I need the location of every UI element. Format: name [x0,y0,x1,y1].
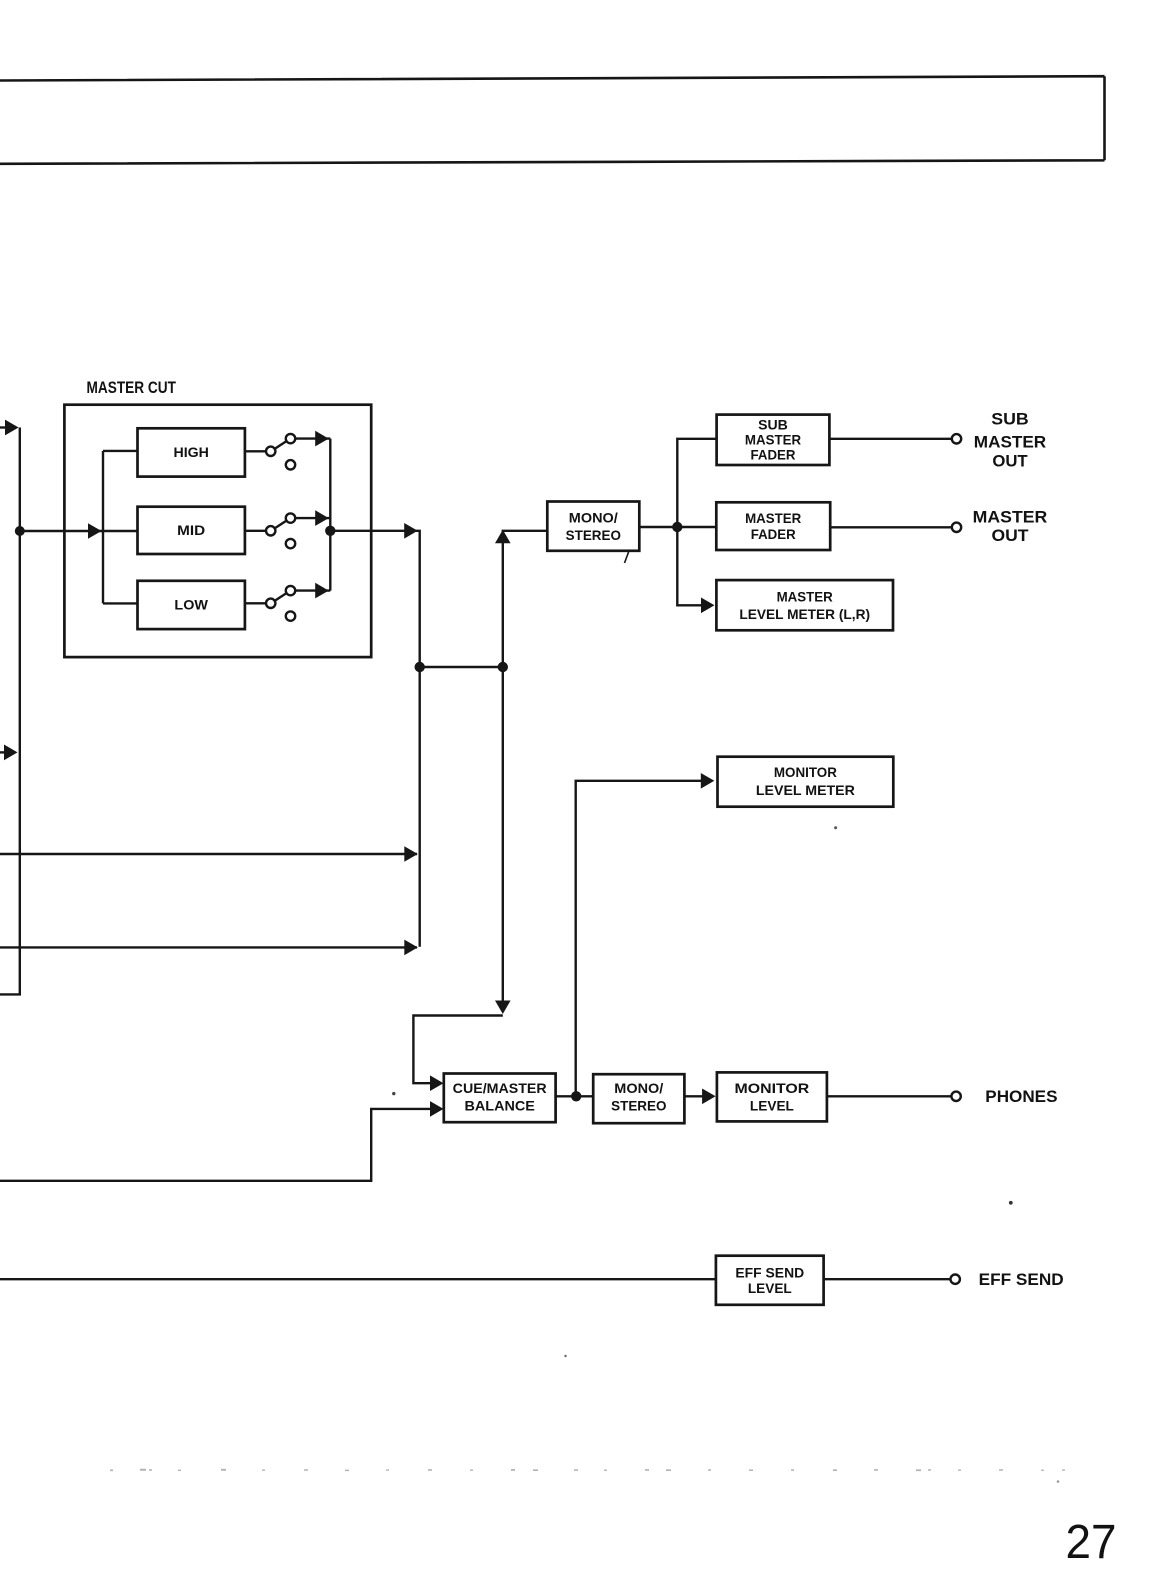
wire LOW throw to bus [295,589,330,591]
arrowhead into monitor level meter [701,773,715,789]
svg-text:LOW: LOW [174,597,208,613]
wire split down to master level meter [677,527,712,605]
wire monitor meter feed [576,781,712,1097]
svg-text:STEREO: STEREO [566,527,621,543]
arrowhead into left bus (top) [5,420,19,436]
wire monitor level to phones jack [827,1095,952,1097]
arrowhead into left bus (lower) [4,745,18,761]
arrowhead feed 1 [404,846,418,862]
svg-text:MONITOR: MONITOR [735,1080,810,1096]
arrowhead into cue/master balance (upper) [430,1075,444,1091]
wire node B up to mono/stereo [503,531,548,667]
wire left long feed 1 [0,853,417,855]
wire split up to sub master fader [677,439,716,527]
svg-text:MASTER: MASTER [745,510,801,526]
block MONITOR LEVEL METER [718,757,894,807]
block CUE/MASTER BALANCE [444,1074,556,1123]
scan speckle band [110,1469,1065,1471]
wire HIGH throw to bus [295,437,330,439]
svg-text:MASTER: MASTER [745,432,801,448]
svg-text:BALANCE: BALANCE [465,1098,535,1114]
stray speck 1 [834,826,837,829]
svg-text:PHONES: PHONES [985,1088,1057,1106]
svg-text:HIGH: HIGH [174,444,209,460]
stray speck 0 [564,1355,566,1357]
block SUB MASTER FADER [717,415,830,465]
switch HIGH lever [275,441,287,449]
svg-text:MASTER: MASTER [777,588,833,604]
switch MID upper throw contact [286,513,295,522]
junction dot monitor tap [571,1091,581,1101]
svg-text:OUT: OUT [992,527,1029,545]
top header box [0,76,1105,164]
svg-text:STEREO: STEREO [611,1098,666,1114]
svg-text:MONO/: MONO/ [614,1080,663,1096]
wire left input stub arrow (lower) [0,751,5,753]
block MONO/STEREO (master) [547,502,639,551]
switch HIGH upper throw contact [286,434,295,443]
block MONITOR LEVEL [717,1072,827,1121]
switch LOW lower throw contact [286,611,295,620]
arrowhead LOW to bus [315,583,329,599]
wire mono/stereo to master fader [639,526,716,528]
svg-text:MONITOR: MONITOR [774,764,837,780]
wire HIGH box to switch pole [245,450,266,452]
block HIGH [138,428,245,476]
svg-text:MID: MID [177,522,205,538]
wire eff send level to jack [824,1278,951,1280]
wire sub master fader to jack [829,438,951,440]
junction dot master split [672,522,682,532]
arrowhead into cue/master balance (lower) [430,1101,444,1117]
wire master fader to jack [830,526,952,528]
junction dot on left bus (MID feed) [15,526,25,536]
wire LOW box to switch pole [245,602,266,604]
svg-text:LEVEL METER (L,R): LEVEL METER (L,R) [739,606,870,622]
switch HIGH pole contact [266,447,275,456]
wire eff send bus [0,1278,716,1280]
svg-text:27: 27 [1066,1516,1117,1569]
switch MID lower throw contact [286,539,295,548]
arrowhead on MID feed [88,523,102,539]
svg-text:LEVEL METER: LEVEL METER [756,782,855,798]
arrowhead feed 2 [404,940,418,956]
MASTER CUT enclosure box [64,405,371,657]
arrowhead down at cue path [495,1001,511,1015]
arrowhead into monitor level [702,1089,716,1105]
block MASTER LEVEL METER [716,580,893,630]
arrowhead HIGH to bus [315,431,329,447]
jack EFF SEND [951,1275,960,1284]
wire MID box to switch pole [245,530,266,532]
arrowhead master cut output [404,523,418,539]
svg-text:SUB: SUB [758,417,788,433]
wire mono/stereo to monitor level [684,1095,713,1097]
switch LOW pole contact [266,599,275,608]
wire cue path L-shape [413,1016,502,1084]
arrowhead up into mono/stereo wire [495,530,511,544]
stray speck 3 [392,1092,395,1095]
svg-text:SUB: SUB [991,411,1029,429]
block MASTER FADER [716,502,830,550]
wire cue/master balance to mono/stereo [556,1095,594,1097]
svg-text:MONO/: MONO/ [569,510,618,526]
svg-text:EFF SEND: EFF SEND [735,1264,804,1280]
arrowhead MID to bus [315,510,329,526]
stray speck 2 [1009,1201,1013,1205]
jack PHONES [951,1092,960,1101]
block MID [138,507,245,554]
wire left input stub arrow (top) [0,426,7,428]
svg-text:OUT: OUT [992,452,1027,470]
block EFF SEND LEVEL [716,1256,824,1305]
svg-text:FADER: FADER [751,526,796,542]
svg-text:MASTER CUT: MASTER CUT [87,379,177,397]
junction dot node B [498,662,508,672]
switch LOW lever [275,593,287,601]
svg-text:LEVEL: LEVEL [748,1280,792,1296]
svg-text:CUE/MASTER: CUE/MASTER [453,1080,547,1096]
svg-text:LEVEL: LEVEL [750,1098,794,1114]
jack SUB MASTER OUT [952,434,961,443]
wire left long feed 2 [0,946,417,948]
svg-text:MASTER: MASTER [973,509,1048,527]
block LOW [138,581,245,629]
wire node A to node B [420,666,503,668]
wire branch vertical to HIGH and LOW [103,451,138,604]
wire master cut output going right then down [330,531,419,947]
jack MASTER OUT [952,523,961,532]
wire node B down to cue path [502,667,504,1001]
wire MID throw to bus [295,517,330,519]
stray slash mark under mono/stereo [625,550,630,564]
stray speck 4 [1057,1480,1060,1483]
switch HIGH lower throw contact [286,460,295,469]
svg-text:MASTER: MASTER [974,433,1047,451]
switch MID pole contact [266,526,275,535]
wire lower input to cue/master balance [0,1109,441,1181]
wire switch output bus vertical [329,439,331,591]
svg-text:EFF SEND: EFF SEND [979,1271,1064,1289]
wire MID feed into master cut [20,530,138,532]
switch LOW upper throw contact [286,586,295,595]
junction dot on switch bus [325,526,335,536]
block MONO/STEREO (monitor) [593,1074,684,1123]
arrowhead into master level meter [701,598,715,614]
junction dot node A [415,662,425,672]
svg-text:FADER: FADER [751,447,796,463]
switch MID lever [275,521,287,529]
wire left vertical bus [0,428,20,995]
